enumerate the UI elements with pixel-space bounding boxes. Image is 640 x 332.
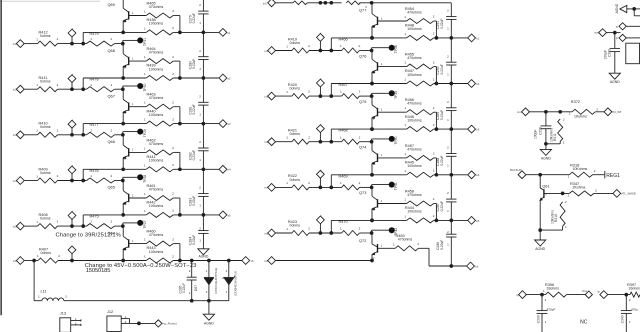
wire bottom line [64, 300, 229, 302]
transistor Q74 [359, 145, 383, 167]
node mid in3 label [264, 140, 268, 144]
svg-text:Q75: Q75 [359, 99, 366, 104]
transistor Q64 [108, 230, 135, 252]
resistor R463 470ohms [144, 93, 174, 110]
svg-text:1: 1 [447, 118, 449, 122]
junction [370, 259, 374, 263]
wire [529, 111, 572, 113]
wire corner [634, 9, 640, 16]
svg-text:100ohms: 100ohms [149, 250, 164, 254]
node mid in2 label [264, 94, 268, 98]
svg-text:1: 1 [447, 209, 449, 213]
svg-text:2: 2 [111, 37, 113, 41]
port in5 diamond [16, 222, 24, 230]
capacitor C291 0.22uF [436, 3, 456, 38]
junction [324, 1, 328, 5]
wire Q64 collector up [122, 226, 124, 236]
svg-text:k4: k4 [228, 168, 231, 172]
svg-text:TP30: TP30 [143, 83, 147, 91]
svg-text:0.22uF: 0.22uF [192, 235, 196, 245]
svg-text:1: 1 [132, 11, 134, 15]
label m [365, 6, 368, 8]
wire 470 to corner [434, 204, 437, 221]
svg-text:2: 2 [111, 220, 113, 224]
resistor R421 0ohms [286, 129, 310, 145]
transistor Q65 [108, 185, 135, 207]
wire Q69 emitter down [122, 21, 124, 33]
svg-text:R475: R475 [90, 215, 99, 219]
resistor R411 0ohms [36, 76, 58, 92]
svg-text:1: 1 [629, 320, 631, 324]
svg-text:100ohms: 100ohms [407, 73, 422, 77]
wire [115, 180, 123, 182]
node in4 input label [13, 179, 17, 183]
svg-text:0.22uF: 0.22uF [440, 201, 444, 211]
resistor R319 vertical [551, 200, 567, 229]
svg-text:1: 1 [90, 128, 92, 132]
svg-text:C340: C340 [621, 315, 625, 323]
svg-text:1: 1 [381, 62, 383, 66]
ground AGND [540, 144, 551, 161]
wire [359, 186, 371, 188]
resistor R467 [339, 83, 361, 99]
svg-text:Iso_Protect: Iso_Protect [163, 322, 177, 326]
junction [319, 1, 323, 5]
svg-text:2: 2 [199, 140, 201, 144]
svg-text:R466: R466 [339, 38, 348, 42]
svg-text:TP31: TP31 [143, 38, 147, 46]
junction [370, 127, 374, 131]
net flag diamond [317, 32, 325, 51]
junction [70, 133, 74, 137]
wire corner to upper line [83, 169, 146, 180]
svg-text:Q65: Q65 [108, 185, 115, 190]
wire upper line out [173, 168, 219, 170]
svg-text:100ohms: 100ohms [149, 159, 164, 163]
wire corner to upper line [83, 124, 146, 135]
junction [81, 87, 85, 91]
svg-text:x: x [72, 73, 74, 75]
svg-text:10Kohms: 10Kohms [573, 167, 588, 171]
node tp label [598, 290, 601, 294]
wire [526, 174, 570, 176]
component box [626, 43, 640, 64]
port diamond [522, 108, 530, 116]
wire Q68 base [129, 60, 147, 62]
svg-text:R319: R319 [554, 214, 558, 222]
svg-text:Q67: Q67 [108, 93, 115, 98]
wire [58, 134, 87, 136]
svg-text:Q74: Q74 [359, 145, 367, 150]
wire Q68 collector up [122, 44, 124, 54]
junction [435, 219, 439, 223]
transistor Q75 [359, 99, 383, 121]
svg-text:1: 1 [381, 244, 383, 248]
svg-text:1: 1 [90, 37, 92, 41]
wire [546, 141, 560, 143]
svg-text:0ohms: 0ohms [290, 132, 301, 136]
junction [370, 231, 374, 235]
label REG1 [605, 171, 620, 179]
net flag diamond [317, 123, 325, 142]
wire [309, 50, 342, 52]
svg-text:1: 1 [38, 295, 40, 299]
junction [370, 127, 374, 131]
wire Q74 collector up [371, 142, 373, 151]
svg-text:1: 1 [199, 21, 201, 25]
port k3 diamond [219, 120, 231, 128]
resistor R469 [339, 174, 361, 190]
svg-text:1: 1 [447, 164, 449, 168]
svg-text:33ohms: 33ohms [547, 287, 560, 291]
svg-text:470ohms: 470ohms [149, 142, 164, 146]
svg-text:ATL_WAKE: ATL_WAKE [621, 192, 636, 196]
net flag diamond [68, 164, 76, 180]
wire Q74 base [378, 157, 407, 159]
port mid in2 diamond [268, 92, 276, 100]
node tp label [516, 293, 519, 297]
wire 470 to corner [173, 244, 180, 261]
port diamond [519, 291, 527, 299]
capacitor C285 0.22uF [178, 261, 196, 301]
wire Q75 base [378, 111, 407, 113]
svg-text:1: 1 [199, 239, 201, 243]
svg-text:2: 2 [57, 37, 59, 41]
resistor R454 470ohms [404, 7, 434, 24]
wire corner to upper line [83, 215, 146, 226]
resistor R444 100ohms [404, 206, 434, 223]
svg-text:100ohms: 100ohms [149, 67, 164, 71]
junction [370, 36, 374, 40]
svg-text:1: 1 [545, 192, 547, 196]
svg-text:2: 2 [433, 60, 435, 64]
test point TP30 [123, 83, 147, 92]
resistor R441 100ohms [144, 155, 174, 172]
svg-text:2: 2 [359, 44, 361, 48]
svg-text:2: 2 [447, 9, 449, 13]
svg-text:10Kohms: 10Kohms [551, 210, 555, 224]
wire 470 to corner [173, 16, 180, 33]
resistor R457 470ohms [404, 144, 434, 161]
wire Q65 emitter down [122, 203, 124, 215]
svg-text:1: 1 [404, 215, 406, 219]
capacitor C287 0.22uF [436, 175, 456, 221]
svg-text:2: 2 [433, 123, 435, 127]
resistor R397 33ohms [627, 283, 640, 302]
svg-text:2: 2 [359, 181, 361, 185]
resistor R468 [339, 129, 361, 145]
wire [309, 186, 342, 188]
svg-text:1: 1 [199, 204, 201, 208]
note 15050185 [86, 268, 111, 274]
svg-text:2: 2 [172, 26, 174, 30]
node mid in5 label [264, 231, 268, 235]
svg-text:10Kohms: 10Kohms [550, 128, 554, 142]
wire upper line out [173, 123, 219, 125]
wire [276, 50, 292, 52]
svg-text:100ohms: 100ohms [149, 204, 164, 208]
wire [359, 232, 371, 234]
wire [627, 8, 640, 10]
wire [626, 37, 640, 39]
svg-text:2: 2 [172, 100, 174, 104]
wire Q72 base [378, 247, 396, 249]
svg-text:k1: k1 [476, 36, 479, 40]
svg-text:x: x [321, 168, 323, 170]
capacitor C289 0.22uF [436, 84, 456, 130]
svg-text:1: 1 [199, 158, 201, 162]
net flag diamond [68, 27, 76, 43]
svg-text:470ohms: 470ohms [407, 193, 422, 197]
capacitor C339 470pF [536, 295, 555, 332]
net flag diamond [68, 73, 76, 89]
wire [115, 225, 123, 227]
svg-text:1: 1 [447, 72, 449, 76]
svg-text:1: 1 [199, 112, 201, 116]
svg-text:2: 2 [308, 44, 310, 48]
svg-text:TP38: TP38 [394, 45, 398, 53]
resistor R458 470ohms [404, 189, 434, 206]
junction [613, 31, 617, 35]
wire upper line out [434, 83, 468, 85]
test point TP27 [123, 220, 147, 229]
svg-text:0ohms: 0ohms [40, 171, 51, 175]
port mid in5 diamond [268, 229, 276, 237]
svg-text:2: 2 [111, 83, 113, 87]
junction [227, 259, 231, 263]
resistor R462 470ohms [144, 138, 174, 155]
wire Q64 base [129, 243, 147, 245]
junction [370, 173, 374, 177]
svg-text:1: 1 [404, 78, 406, 82]
wire upper line out [173, 214, 219, 216]
node in5 input label [13, 224, 17, 228]
svg-text:1: 1 [90, 220, 92, 224]
svg-text:tp: tp [616, 24, 619, 28]
junction [70, 179, 74, 183]
svg-text:1: 1 [340, 90, 342, 94]
svg-text:2: 2 [308, 90, 310, 94]
resistor R464 470ohms [144, 47, 174, 64]
test point TP38 [372, 45, 399, 54]
junction [178, 213, 182, 217]
node mid in6 label [264, 259, 268, 263]
svg-text:1: 1 [144, 209, 146, 213]
resistor R470 [339, 220, 361, 236]
node BACKUP label [510, 168, 522, 172]
ground AGND left-facing [615, 3, 627, 13]
junction [121, 213, 125, 217]
junction [70, 87, 74, 91]
svg-text:1: 1 [447, 27, 449, 31]
wire [359, 50, 371, 52]
svg-text:BZX84C3V3LT1G: BZX84C3V3LT1G [233, 270, 237, 295]
svg-text:k4: k4 [476, 173, 479, 177]
svg-text:1: 1 [545, 320, 547, 324]
svg-text:C339: C339 [536, 315, 540, 323]
svg-text:1: 1 [340, 44, 342, 48]
svg-text:0.22uF: 0.22uF [440, 156, 444, 166]
junction [121, 42, 125, 46]
svg-text:2: 2 [565, 200, 567, 204]
test point TP31 [123, 37, 147, 46]
svg-text:1: 1 [90, 174, 92, 178]
svg-text:1: 1 [144, 72, 146, 76]
junction [121, 179, 125, 183]
wire [276, 232, 292, 234]
svg-text:1: 1 [404, 198, 406, 202]
svg-text:1: 1 [144, 238, 146, 242]
svg-text:2: 2 [199, 94, 201, 98]
wire upper line out [434, 128, 468, 130]
wire [58, 225, 87, 227]
wire [115, 43, 123, 45]
junction [121, 87, 125, 91]
svg-text:0.22uF: 0.22uF [192, 104, 196, 114]
svg-text:2: 2 [433, 152, 435, 156]
svg-text:Q76: Q76 [359, 53, 366, 58]
junction [370, 173, 374, 177]
svg-text:IM_INT: IM_INT [612, 110, 621, 114]
capacitor C290 0.22uF [436, 38, 456, 84]
svg-text:in0: in0 [263, 2, 267, 6]
svg-text:1: 1 [286, 44, 288, 48]
junction [81, 179, 85, 183]
svg-text:470ohms: 470ohms [407, 102, 422, 106]
junction [121, 133, 125, 137]
net flag diamond [68, 118, 76, 134]
junction bus [449, 82, 453, 86]
transistor Q69 [108, 2, 135, 24]
wire Q68 emitter down [122, 66, 124, 78]
junction [207, 299, 211, 303]
svg-text:x: x [321, 32, 323, 34]
port mid in4 diamond [268, 184, 276, 192]
junction [370, 1, 374, 5]
svg-text:2: 2 [172, 117, 174, 121]
svg-text:1: 1 [144, 55, 146, 59]
junction bus [449, 264, 453, 268]
resistor R412 0ohms [36, 30, 58, 46]
svg-text:2: 2 [57, 174, 59, 178]
svg-text:1: 1 [144, 192, 146, 196]
test point TP41 [372, 182, 399, 191]
capacitor C286 0.22uF [436, 220, 456, 266]
svg-text:15050185: 15050185 [86, 268, 111, 274]
junction bus [202, 31, 206, 35]
port mid k3 diamond [468, 125, 480, 133]
svg-text:2: 2 [189, 269, 191, 273]
svg-text:2: 2 [111, 128, 113, 132]
wire Q75 emitter down [371, 118, 373, 130]
wire upper line out [173, 31, 219, 33]
svg-text:470ohms: 470ohms [407, 147, 422, 151]
wire [24, 43, 37, 45]
wire [359, 2, 451, 4]
wire corner to upper line [331, 38, 406, 51]
svg-text:2: 2 [359, 227, 361, 231]
wire Q77 emitter down [371, 26, 373, 38]
svg-text:3: 3 [226, 269, 228, 273]
svg-text:1: 1 [563, 141, 565, 145]
wire [24, 260, 38, 262]
port mid k1 diamond [468, 34, 480, 42]
svg-text:0ohms: 0ohms [290, 178, 301, 182]
svg-text:k2: k2 [476, 82, 479, 86]
junction [370, 82, 374, 86]
svg-text:33ohms: 33ohms [629, 287, 640, 291]
junction bus [449, 173, 453, 177]
wire [595, 111, 604, 113]
resistor top [346, 1, 360, 5]
svg-text:k3: k3 [228, 122, 231, 126]
junction [81, 224, 85, 228]
wire Q73 emitter down [371, 209, 373, 221]
svg-text:470ohms: 470ohms [149, 96, 164, 100]
junction [178, 167, 182, 171]
svg-text:2: 2 [172, 192, 174, 196]
svg-text:1: 1 [144, 10, 146, 14]
svg-text:1: 1 [199, 67, 201, 71]
node and label [594, 31, 599, 35]
svg-text:AGND: AGND [199, 255, 209, 259]
port diamond [616, 23, 626, 30]
svg-text:1: 1 [404, 152, 406, 156]
test point TP28 [123, 174, 147, 183]
svg-text:2: 2 [57, 128, 59, 132]
resistor R311 vertical [550, 117, 565, 144]
svg-text:C300: C300 [607, 49, 611, 57]
svg-text:k3: k3 [476, 128, 479, 132]
junction [81, 42, 85, 46]
wire corner to upper line [83, 78, 146, 89]
svg-text:1: 1 [286, 227, 288, 231]
svg-text:R477: R477 [90, 123, 99, 127]
junction [121, 122, 125, 126]
svg-text:R469: R469 [339, 174, 348, 178]
svg-text:2: 2 [545, 298, 547, 302]
junction [370, 82, 374, 86]
resistor R438 100ohms [144, 18, 174, 35]
svg-text:1: 1 [144, 146, 146, 150]
svg-text:2: 2 [172, 209, 174, 213]
svg-text:2: 2 [199, 3, 201, 7]
port k2 diamond [219, 74, 231, 82]
svg-text:D97: D97 [194, 285, 198, 291]
wire [276, 260, 373, 262]
wire Q61 base [544, 192, 570, 194]
svg-text:k2: k2 [228, 76, 231, 80]
connector J12 [107, 309, 130, 332]
port mid in1 diamond [268, 47, 276, 55]
capacitor C284 0.22uF [188, 215, 208, 249]
svg-text:1: 1 [340, 181, 342, 185]
wire upper line out [434, 219, 468, 221]
svg-text:2: 2 [57, 83, 59, 87]
svg-text:AGND: AGND [541, 156, 551, 160]
wire 470 to corner [434, 158, 437, 175]
port in2 diamond [16, 85, 24, 93]
test point TP40 [372, 136, 399, 145]
wire 470 to corner [434, 67, 437, 84]
wire [24, 88, 37, 90]
junction bus [449, 127, 453, 131]
svg-text:470ohms: 470ohms [407, 10, 422, 14]
wire row6 down to L11 [34, 261, 42, 301]
svg-text:470pF: 470pF [547, 307, 556, 311]
port in4 diamond [16, 177, 24, 185]
ground AGND [203, 301, 214, 326]
